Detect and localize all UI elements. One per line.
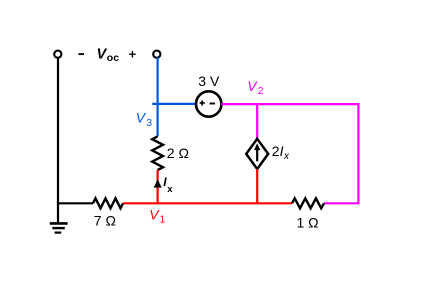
wire: magenta vertical from V2 node to current source: [256, 104, 258, 139]
terminal: left open circle: [54, 51, 61, 58]
terminal: right open circle: [153, 51, 160, 58]
wire: bottom-left black horizontal: [57, 202, 93, 204]
svg-text:I: I: [280, 143, 284, 159]
svg-text:+: +: [129, 46, 137, 61]
wire: blue vertical from right terminal to 2-ohm resistor: [157, 58, 159, 137]
svg-text:oc: oc: [107, 52, 119, 64]
svg-text:1: 1: [160, 214, 166, 226]
resistor R 1-ohm: [292, 198, 324, 208]
svg-text:2 Ω: 2 Ω: [167, 145, 189, 161]
svg-text:2: 2: [258, 85, 264, 97]
svg-text:7 Ω: 7 Ω: [94, 212, 116, 228]
dependent current source 2Ix (diamond): [246, 139, 268, 169]
wire: blue horizontal to 3V source (with node stub): [152, 103, 196, 105]
current arrow Ix: [154, 179, 162, 187]
wire: red vertical from 2-ohm to bottom node V1: [157, 170, 159, 203]
wire: red vertical below current source: [256, 169, 258, 203]
wire: magenta bottom right horizontal: [324, 202, 360, 204]
ground: [50, 223, 68, 232]
svg-text:3 V: 3 V: [198, 73, 220, 89]
svg-text:2: 2: [272, 143, 280, 159]
voltage source U1 3V: [196, 91, 221, 116]
svg-text:3: 3: [146, 117, 152, 129]
resistor R 2-ohm (vertical): [152, 136, 163, 170]
label: - Voc +: [79, 53, 85, 55]
wire: left black vertical from terminal to ground: [57, 59, 59, 223]
svg-text:x: x: [167, 184, 173, 195]
svg-text:x: x: [283, 151, 290, 162]
wire: magenta right vertical: [357, 104, 359, 203]
svg-text:1 Ω: 1 Ω: [297, 214, 319, 230]
wire: red bottom horizontal: [123, 202, 292, 204]
wire: magenta horizontal top: [221, 103, 359, 105]
resistor R 7-ohm: [93, 198, 123, 208]
